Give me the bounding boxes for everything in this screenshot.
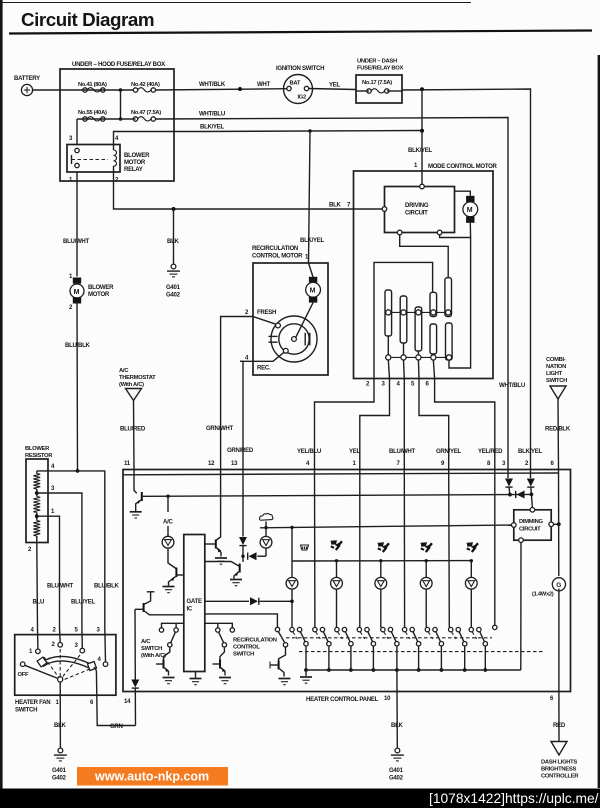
junction LED rail x=426 (425, 559, 428, 562)
svg-text:G401: G401 (52, 768, 67, 774)
junction LED1 column (290, 600, 294, 604)
junction LED rail x=471 (470, 559, 473, 562)
svg-text:RELAY: RELAY (124, 167, 143, 173)
wire D1 to junction (242, 546, 244, 562)
svg-text:CIRCUIT: CIRCUIT (519, 527, 541, 533)
wire fuse55 row (77, 118, 136, 120)
ignition switch (276, 66, 324, 104)
svg-text:www.auto-nkp.com: www.auto-nkp.com (94, 770, 209, 784)
dashed gang line lower (299, 651, 545, 653)
wire dimming bottom pin to contact rail (520, 543, 522, 671)
recirc REC contact pin4 (240, 348, 288, 371)
mode position bar2 (400, 296, 407, 343)
svg-text:BLK: BLK (167, 239, 180, 245)
battery (14, 76, 40, 96)
resistor internal links (36, 471, 38, 543)
svg-text:WHT/BLU: WHT/BLU (499, 383, 525, 389)
svg-text:No.42 (40A): No.42 (40A) (131, 82, 160, 88)
diode D7 between pin3 and pin2 nodes (510, 491, 531, 499)
wire B+ rail (Q1 collector) (148, 495, 510, 497)
ground Q2 (163, 587, 175, 593)
wire resistor pin2 down (36, 543, 39, 628)
ground Q4 (230, 580, 242, 586)
svg-text:FRESH: FRESH (257, 310, 276, 316)
LED A/C indicator (162, 536, 174, 548)
junction blower feed (76, 469, 80, 473)
heater control panel box (123, 470, 571, 692)
svg-text:M: M (310, 288, 316, 295)
junction BLK ground tap (172, 207, 176, 211)
wire pin7 column (403, 470, 405, 628)
wire pin3 diode to rail (508, 487, 511, 495)
svg-text:THERMOSTAT: THERMOSTAT (119, 375, 156, 381)
wire LED1 stub (291, 561, 293, 578)
svg-text:BLK/YEL: BLK/YEL (200, 125, 224, 131)
fuse No.17 (7.5A) (356, 89, 402, 94)
page left edge strip (0, 0, 3, 790)
mode wiper rail lower (385, 356, 452, 358)
transistor Q5 (fan signal) (135, 592, 184, 615)
diode D5 on pin3 WHT/BLU (505, 479, 513, 487)
wire indicator rail to dimming circuit (260, 525, 514, 528)
blower resistor box (25, 446, 53, 543)
mode position bar5 (445, 278, 452, 317)
mode selector position 2 (313, 627, 331, 672)
wire resistor pin4 tap (37, 471, 105, 628)
svg-text:SWITCH: SWITCH (233, 652, 254, 658)
resistor R1 segment (33, 474, 40, 490)
svg-text:IGNITION SWITCH: IGNITION SWITCH (276, 66, 324, 72)
mode selector position 9 (469, 627, 487, 672)
svg-text:M: M (74, 289, 80, 296)
wire BLK/YEL from fuse17 to right drop (402, 89, 531, 478)
diode D2 to recirc LED (248, 552, 266, 560)
junction LED rail x=380 (379, 559, 382, 562)
wire LED5 stub (470, 561, 472, 578)
wire relay pin4 riser to BLK/YEL (114, 132, 202, 145)
svg-text:RECIRCULATION: RECIRCULATION (233, 638, 277, 644)
watermark black bar (0, 789, 600, 808)
svg-text:REC.: REC. (257, 366, 271, 372)
wire relay pin2 to BLK rail (114, 172, 385, 209)
svg-text:IG2: IG2 (298, 95, 307, 101)
junction node fuse row2 (119, 117, 123, 121)
diode D1 on pin13 line (239, 537, 247, 545)
wire BLK/YEL to recirculation motor (309, 131, 311, 263)
dimming circuit box (512, 508, 554, 543)
fan switch wires into box (38, 628, 106, 662)
svg-text:DASH LIGHTS: DASH LIGHTS (541, 760, 577, 766)
wire YEL ignition to under-dash box (309, 89, 356, 90)
mode selector position 6 (402, 627, 420, 672)
wire mode pin5 to panel pin9 GRN/YEL (419, 379, 449, 471)
wire pin9 column (448, 470, 451, 628)
wire driving pin1 to bar5 (400, 235, 449, 278)
svg-text:YEL: YEL (349, 449, 361, 455)
recirc FRESH contact pin2 (240, 310, 280, 328)
ground Q7 (219, 678, 231, 684)
mode selector position 3 (335, 627, 353, 672)
wire BLK/YEL horizontal to mode motor (201, 131, 422, 132)
fuse No.41 (80A) (78, 82, 107, 92)
svg-text:BLK/YEL: BLK/YEL (518, 449, 542, 455)
ground Q1 (130, 512, 142, 518)
wire GRN/RED rec to panel pin13 (240, 361, 243, 470)
svg-text:BLK/YEL: BLK/YEL (408, 148, 432, 154)
wire RED/BLK light switch to panel pin6 (557, 399, 560, 470)
wire pin14 through panel edge (134, 688, 136, 725)
svg-text:14: 14 (124, 699, 131, 705)
svg-text:HEATER CONTROL PANEL: HEATER CONTROL PANEL (306, 697, 379, 703)
wire pin2 node to dimming circuit (531, 494, 532, 507)
fuse No.42 (40A) (131, 82, 160, 92)
svg-text:No.55 (40A): No.55 (40A) (78, 110, 107, 116)
svg-text:GRN/WHT: GRN/WHT (206, 426, 234, 432)
fuse No.55 (40A) (78, 110, 107, 121)
svg-text:BLU/WHT: BLU/WHT (47, 584, 74, 590)
wire fuse41 to fuse42 (60, 89, 135, 91)
junction pin13 node (241, 555, 244, 558)
svg-text:GRN/RED: GRN/RED (227, 448, 254, 454)
fan switch contacts (18, 642, 108, 678)
svg-text:UNDER – HOOD FUSE/RELAY BOX: UNDER – HOOD FUSE/RELAY BOX (72, 62, 165, 68)
resistor R3 segment (33, 521, 40, 537)
wire A/C LED to Q2 (168, 548, 176, 568)
junction resistor node3 (35, 491, 39, 495)
mode wiper contacts lower (386, 355, 452, 360)
transistor Q3 (thermostat input) (205, 540, 222, 557)
transistor Q6 (A/C switch) (156, 660, 169, 676)
wire D4 to LED1 column (260, 600, 292, 602)
svg-text:No.17 (7.5A): No.17 (7.5A) (362, 80, 392, 86)
blower motor M1 (69, 274, 114, 311)
A/C switch label (141, 639, 166, 659)
wire A/C switch to Q6 (164, 647, 170, 660)
fan switch wiper (25, 649, 90, 682)
svg-text:UNDER – DASH: UNDER – DASH (357, 59, 397, 65)
svg-text:A/C: A/C (141, 639, 151, 645)
wire RED panel pin6 to controller (558, 692, 560, 742)
junction node WHT/BLK splice (238, 87, 242, 91)
LED mode indicator 3 (375, 577, 387, 589)
svg-text:12: 12 (208, 461, 215, 467)
wire battery to under-hood box (33, 89, 60, 91)
svg-text:No.47 (7.5A): No.47 (7.5A) (131, 110, 161, 116)
junction lamp line (557, 522, 561, 526)
combination light switch connector (546, 357, 567, 399)
wire driving pin2 to motor drop (440, 235, 471, 238)
ground Q3 (215, 558, 227, 564)
mode position bar1 (385, 290, 392, 336)
mode position bar6 (430, 324, 437, 354)
svg-text:M: M (467, 207, 473, 214)
junction node fuse row1 (119, 88, 123, 92)
svg-text:MODE CONTROL MOTOR: MODE CONTROL MOTOR (428, 164, 498, 170)
svg-text:BLOWER: BLOWER (88, 285, 114, 291)
blower motor relay (67, 136, 150, 184)
svg-text:BRIGHTNESS: BRIGHTNESS (541, 767, 576, 773)
svg-text:CIRCUIT: CIRCUIT (405, 211, 428, 217)
mode position bar3 (415, 307, 422, 351)
icon vent4 (467, 542, 479, 552)
svg-text:11: 11 (124, 461, 131, 467)
svg-text:BLK: BLK (391, 723, 404, 729)
fan wire labels (33, 584, 120, 606)
svg-text:(1.4Wx2): (1.4Wx2) (532, 592, 554, 598)
svg-text:G401: G401 (166, 285, 181, 291)
transistor Q8 (270, 661, 284, 677)
svg-text:GRN: GRN (110, 724, 123, 730)
svg-text:BLU: BLU (33, 600, 45, 606)
svg-text:WHT: WHT (257, 82, 271, 88)
dashed gang line upper (286, 637, 492, 639)
lamp (1.4Wx2) (552, 578, 565, 591)
wire pin10 to ground (396, 670, 398, 748)
svg-text:CONTROLLER: CONTROLLER (541, 774, 579, 780)
svg-text:G402: G402 (166, 293, 181, 299)
svg-text:OFF: OFF (18, 672, 29, 678)
wire LED2 down to contact (336, 589, 338, 627)
svg-text:YEL: YEL (329, 83, 341, 89)
cloud icon (recirc) (259, 513, 272, 520)
wire LED2 stub (336, 561, 338, 578)
wire pin2 diode to node (530, 487, 533, 494)
svg-text:BLU/BLK: BLU/BLK (65, 343, 90, 349)
svg-text:A/C: A/C (119, 368, 129, 374)
svg-text:BLOWER: BLOWER (124, 153, 150, 159)
wire lamp to panel pin6 bottom (558, 589, 560, 692)
svg-text:BAT: BAT (290, 81, 301, 87)
diode D4 IC output (250, 597, 258, 605)
wires bars to mode pins (388, 336, 434, 379)
heater fan switch box (15, 628, 116, 714)
ground G401 G402 (fan switch) (52, 748, 67, 781)
svg-text:A/C: A/C (163, 520, 173, 526)
ground G401 G402 (panel) (389, 748, 404, 781)
recirc motor M2 (306, 263, 321, 303)
mode control motor box (354, 163, 498, 379)
recirculation control motor box (252, 246, 328, 375)
transistor Q7 (recirc switch) (213, 660, 226, 676)
transistor Q1 (blower signal) (136, 492, 148, 511)
recirc rotor assembly (269, 303, 318, 362)
wire mode pin6 to panel pin8 YEL/RED (435, 379, 495, 471)
svg-text:(With A/C): (With A/C) (141, 653, 166, 659)
svg-text:10: 10 (384, 696, 391, 702)
svg-text:G402: G402 (389, 776, 404, 782)
svg-text:LIGHT: LIGHT (546, 371, 563, 377)
svg-text:MOTOR: MOTOR (88, 292, 110, 298)
icon vent1 (331, 540, 343, 550)
svg-text:BLK/YEL: BLK/YEL (300, 238, 324, 244)
resistor R2 segment (33, 497, 40, 513)
A/C switch contacts (159, 623, 184, 647)
diode D3 on pin14 line (131, 680, 139, 688)
svg-text:G401: G401 (389, 768, 404, 774)
mode selector contact pin8 (493, 625, 497, 629)
svg-text:DRIVING: DRIVING (405, 203, 429, 209)
wire pin6 lamp line upper (558, 470, 560, 576)
wire LED column upper (291, 527, 293, 561)
mode selector position 8 (449, 627, 467, 672)
transistor Q2 (A/C indicator driver) (169, 568, 184, 586)
icon defrost (301, 545, 309, 550)
wire pin12 into panel (216, 470, 220, 540)
wire motor column down and around to bar7 (449, 238, 471, 369)
svg-text:BLU/WHT: BLU/WHT (389, 449, 416, 455)
driving circuit box (382, 184, 454, 235)
wire BLK down to ground (173, 209, 175, 264)
fuse No.47 (7.5A) (131, 110, 161, 121)
wire recirc poleB to Q8 (279, 647, 286, 661)
mode selector position 7 (425, 627, 443, 672)
mode pin labels 2 3 4 5 6 (366, 382, 430, 388)
panel pin number labels top (124, 461, 555, 467)
mode wiper rail upper (385, 311, 452, 313)
wire LED4 stub (425, 561, 427, 578)
ground Q8 (279, 679, 291, 685)
ground array rail (300, 670, 312, 683)
LED recirc indicator (260, 536, 272, 548)
wire resistor pin1 tap (37, 516, 60, 627)
wire BLU/RED thermostat to panel pin11 (133, 401, 136, 471)
wire mode pin2 riser to bar4 (374, 262, 433, 378)
svg-text:WHT/BLU: WHT/BLU (199, 112, 225, 118)
svg-text:YEL/BLU: YEL/BLU (297, 449, 321, 455)
junction resistor node1 (35, 514, 39, 518)
fan switch rotor arc (37, 656, 96, 670)
junction fuse17 output (420, 87, 424, 91)
wire BLU/WHT relay pin1 to blower motor (76, 172, 78, 277)
wire pin8 column (494, 470, 496, 625)
mode position bar4 (430, 292, 437, 316)
transistor Q4 (recirc driver) (205, 562, 240, 579)
wire GRN/WHT fresh to panel pin12 (221, 317, 240, 471)
svg-text:No.41 (80A): No.41 (80A) (78, 82, 107, 88)
wire LED row rail (292, 560, 471, 562)
wire BLU/BLK blower motor to resistor pin4 (76, 304, 79, 471)
svg-text:CONTROL: CONTROL (233, 645, 260, 651)
wire IC diode output to LED1 column (205, 600, 249, 602)
wire A/C LED feed (166, 495, 169, 537)
LED mode indicator 1 (286, 577, 298, 589)
page right edge strip (598, 55, 600, 788)
wire arc tab to pin6 (94, 667, 96, 671)
wire LED1 down to contact (291, 589, 293, 627)
svg-text:HEATER FAN: HEATER FAN (15, 700, 50, 706)
svg-text:RESISTOR: RESISTOR (25, 453, 53, 459)
title underline rule (9, 31, 592, 34)
svg-text:BLK: BLK (329, 203, 342, 209)
wire link row1-row2 between fuses (120, 90, 122, 119)
wire WHT/BLK fuse42 to ignition switch (156, 89, 287, 90)
wire LED3 down to contact (380, 589, 382, 627)
svg-text:RECIRCULATION: RECIRCULATION (252, 246, 298, 252)
junction B+ rail pin3 (508, 493, 512, 497)
wire LED3 stub (380, 561, 382, 578)
svg-text:SWITCH: SWITCH (15, 708, 37, 714)
dash lights brightness controller connector (541, 742, 579, 780)
mode selector position 5 (381, 627, 399, 672)
svg-text:BLOWER: BLOWER (25, 446, 50, 452)
switch array common rail (306, 669, 521, 671)
wire resistor pin3 tap (37, 493, 82, 628)
svg-text:DIMMING: DIMMING (519, 519, 543, 525)
wire pin1 column (359, 470, 361, 628)
svg-text:COMBI-: COMBI- (546, 357, 566, 363)
wire dimming right pin to lamp line (554, 523, 559, 525)
wire mode pin2 to panel pin4 YEL/BLU (315, 379, 375, 471)
wire recirc LED to D2 (265, 548, 267, 556)
svg-text:BLU/BLK: BLU/BLK (94, 584, 119, 590)
recirc switch contacts B (205, 614, 288, 647)
ground Q6 (163, 678, 175, 684)
junction rail to LED column (290, 526, 293, 529)
svg-text:G402: G402 (52, 776, 67, 782)
icon vent3 (421, 542, 433, 552)
wire pin4 column (314, 470, 316, 628)
panel inner top rail (123, 473, 559, 475)
mode selector position 4 (357, 627, 375, 672)
wire pin14 riser (134, 609, 136, 679)
ground G401 G402 (engine BLK) (166, 264, 181, 298)
svg-text:13: 13 (231, 461, 238, 467)
svg-text:YEL/RED: YEL/RED (478, 449, 503, 455)
svg-text:SWITCH: SWITCH (546, 378, 567, 384)
svg-text:FUSE/RELAY BOX: FUSE/RELAY BOX (357, 66, 403, 72)
under-hood fuse/relay box (60, 62, 174, 181)
svg-text:BLU/YEL: BLU/YEL (71, 600, 95, 606)
page top border line (0, 2, 471, 4)
panel bottom pin labels (124, 696, 554, 705)
wire WHT/BLU fuse47 output (156, 118, 509, 479)
svg-text:IC: IC (187, 607, 193, 613)
wire recirc switch to Q7 (220, 647, 224, 660)
LED mode indicator 4 (420, 577, 432, 589)
svg-text:BLK: BLK (54, 723, 67, 729)
under-dash fuse/relay box (356, 59, 403, 104)
mode selector position 1 (290, 627, 308, 672)
wire pin13 into panel (242, 470, 244, 537)
diode D6 on pin2 BLK/YEL (527, 479, 535, 487)
wire LED5 down to contact (470, 589, 472, 627)
mode wiper contacts upper (386, 310, 451, 315)
svg-text:WHT/BLK: WHT/BLK (199, 82, 226, 88)
svg-text:GATE: GATE (187, 599, 202, 605)
wire mode pin4 to panel pin7 BLU/WHT (403, 379, 405, 471)
A/C thermostat connector (119, 368, 156, 401)
gate IC box (184, 535, 205, 672)
svg-text:BLU/WHT: BLU/WHT (63, 239, 90, 245)
wire fan switch pin1 to ground (59, 682, 61, 748)
junction LED rail x=336 (335, 559, 338, 562)
wire IC bottom to ground (195, 672, 197, 678)
junction pin2 node (530, 493, 534, 497)
wire GRN fan switch pin6 to panel pin14 (96, 671, 135, 726)
svg-text:[1078x1422]https://uplc.me/: [1078x1422]https://uplc.me/ (429, 791, 599, 806)
ground gate IC (190, 679, 202, 685)
svg-text:NATION: NATION (546, 364, 566, 370)
mode motor M3 (455, 191, 478, 237)
svg-text:GRN/YEL: GRN/YEL (436, 449, 462, 455)
svg-text:CONTROL MOTOR: CONTROL MOTOR (252, 254, 303, 260)
LED mode indicator 2 (331, 577, 343, 589)
wire pin11 into panel (134, 470, 137, 493)
icon vent2 (378, 542, 390, 552)
recirc icon feed (264, 522, 267, 537)
svg-text:BATTERY: BATTERY (14, 76, 40, 82)
svg-text:BLU/RED: BLU/RED (120, 427, 146, 433)
